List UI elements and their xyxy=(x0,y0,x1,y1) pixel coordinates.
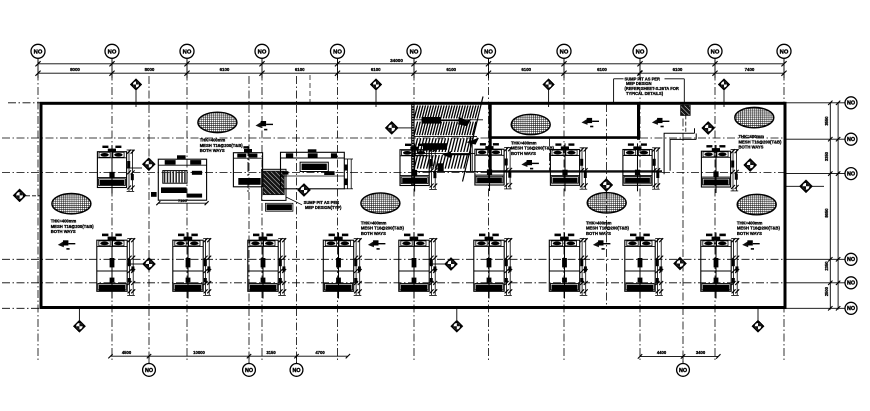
row line to right bubble xyxy=(785,282,845,284)
grid stem xyxy=(186,58,188,78)
reference diamond marker xyxy=(600,178,613,191)
room box thick walls xyxy=(490,103,638,172)
reference diamond marker xyxy=(127,263,143,265)
svg-text:2500: 2500 xyxy=(824,286,829,296)
isolated footing bottom row x=564.5 xyxy=(549,233,587,299)
wall marker diamond (bottom) xyxy=(456,309,458,321)
svg-text:BOTH WAYS: BOTH WAYS xyxy=(739,145,764,150)
svg-text:NO: NO xyxy=(292,368,300,374)
grid line vertical x=640 xyxy=(639,58,641,362)
section arrow marker xyxy=(256,121,274,130)
mesh note text xyxy=(586,220,630,236)
svg-text:NO: NO xyxy=(679,368,687,374)
slab zone hatched ellipse xyxy=(735,107,774,127)
svg-text:NO: NO xyxy=(636,49,645,55)
grid line vertical x=187 xyxy=(186,58,188,362)
combined footing F2 xyxy=(158,155,206,200)
svg-text:34000: 34000 xyxy=(390,58,403,63)
isolated footing bottom row x=112 xyxy=(97,233,135,299)
row grid line E y=282.8 xyxy=(2,282,785,284)
reference diamond marker xyxy=(13,189,26,202)
sump pit note text block xyxy=(625,77,679,97)
dimension tick xyxy=(335,61,340,66)
isolated footing bottom row x=188 xyxy=(173,233,211,299)
svg-text:NO: NO xyxy=(847,281,855,287)
stair direction arrow up xyxy=(422,117,468,124)
svg-text:4700: 4700 xyxy=(315,350,325,355)
svg-text:THK=400mm: THK=400mm xyxy=(51,218,77,223)
svg-text:NO: NO xyxy=(484,49,493,55)
slab zone hatched ellipse xyxy=(587,193,626,213)
isolated footing top row x=565 xyxy=(550,143,587,191)
dimension tick xyxy=(637,61,642,66)
svg-text:8650: 8650 xyxy=(824,208,829,218)
dimension tick xyxy=(712,61,717,66)
reference diamond marker xyxy=(702,121,715,134)
row grid line C y=172.4 xyxy=(2,171,488,173)
dimension tick xyxy=(411,61,416,66)
svg-text:3550: 3550 xyxy=(824,116,829,126)
grid bubble top xyxy=(633,44,647,58)
isolated footing top row x=716 xyxy=(701,145,738,193)
svg-text:7400: 7400 xyxy=(745,67,755,72)
dimension tick xyxy=(486,61,491,66)
F2 bar hatch xyxy=(165,171,185,182)
grid stem xyxy=(261,58,263,78)
grid bubble bottom xyxy=(148,356,150,364)
secondary grid line vertical x=683 xyxy=(682,104,684,366)
mesh note text xyxy=(737,220,781,236)
svg-text:BOTH WAYS: BOTH WAYS xyxy=(51,229,76,234)
row grid bubble right xyxy=(845,133,857,145)
stub line top margin xyxy=(309,75,311,102)
svg-text:NO: NO xyxy=(780,49,789,55)
svg-text:THK=400mm: THK=400mm xyxy=(737,220,763,225)
svg-text:NO: NO xyxy=(711,49,720,55)
grid line vertical x=112 xyxy=(111,58,113,362)
row line to right bubble xyxy=(785,102,845,104)
grid bubble bottom right xyxy=(682,356,684,364)
section arrow marker xyxy=(582,118,600,127)
svg-text:NO: NO xyxy=(847,172,855,178)
svg-text:MESH T16@200(T&B): MESH T16@200(T&B) xyxy=(511,146,555,151)
wall marker diamond (top) xyxy=(723,90,725,107)
row line to right bubble xyxy=(785,307,845,309)
svg-text:MESH T16@200(T&B): MESH T16@200(T&B) xyxy=(51,224,95,229)
svg-text:6100: 6100 xyxy=(446,67,456,72)
reference diamond marker xyxy=(429,263,445,265)
svg-text:6100: 6100 xyxy=(673,67,683,72)
svg-text:NO: NO xyxy=(847,257,855,263)
secondary grid line vertical x=606.5 xyxy=(606,104,608,308)
stair side ladder xyxy=(411,104,414,186)
dimension tick xyxy=(109,61,114,66)
section arrow marker xyxy=(368,240,386,249)
svg-text:3150: 3150 xyxy=(266,350,276,355)
wall marker diamond (bottom) xyxy=(78,309,80,321)
svg-text:THK=400mm: THK=400mm xyxy=(511,140,537,145)
svg-text:10000: 10000 xyxy=(193,350,205,355)
svg-text:THK=400mm: THK=400mm xyxy=(200,137,226,142)
row line to right bubble xyxy=(785,173,845,175)
svg-text:3400: 3400 xyxy=(696,350,706,355)
isolated footing top row x=112 xyxy=(97,146,134,194)
grid bubble top xyxy=(105,44,119,58)
wall grid stub x=549.5 xyxy=(549,139,551,172)
stair section cut slanted line xyxy=(463,97,484,182)
row grid line B y=138 xyxy=(2,137,785,139)
svg-text:NO: NO xyxy=(34,49,43,55)
left margin marker row y=196 xyxy=(26,195,41,197)
svg-text:6100: 6100 xyxy=(597,67,607,72)
grid bubble top xyxy=(482,44,496,58)
isolated footing top row x=414.6 xyxy=(400,144,437,192)
section arrow marker xyxy=(58,240,76,249)
grid stem xyxy=(639,58,641,78)
svg-text:MESH T16@200(T&B): MESH T16@200(T&B) xyxy=(586,226,630,231)
grid line vertical x=38 xyxy=(37,58,39,362)
row grid bubble right xyxy=(845,277,857,289)
dimension tick xyxy=(781,61,786,66)
row line to right bubble xyxy=(785,258,845,260)
sump note leader lines xyxy=(614,79,685,105)
isolated footing top row x=489.5 xyxy=(475,143,512,191)
lift pit corridor walls xyxy=(664,115,696,174)
reference diamond marker xyxy=(127,167,142,169)
secondary grid line vertical x=149 xyxy=(148,76,150,366)
svg-text:TYPICAL DETAILS): TYPICAL DETAILS) xyxy=(626,91,664,96)
svg-text:6100: 6100 xyxy=(295,67,305,72)
stair enclosure outline xyxy=(413,103,491,171)
mesh note text xyxy=(51,218,95,234)
grid stem xyxy=(714,58,716,78)
svg-text:NO: NO xyxy=(847,101,855,107)
svg-text:BOTH WAYS: BOTH WAYS xyxy=(361,231,386,236)
reference diamond marker xyxy=(799,180,812,193)
svg-text:4400: 4400 xyxy=(657,350,667,355)
plan boundary thick rectangle xyxy=(41,103,785,307)
slab zone hatched ellipse xyxy=(52,194,91,214)
svg-text:NO: NO xyxy=(183,49,192,55)
wall marker diamond (top) xyxy=(135,90,137,107)
right margin dimension line a xyxy=(829,102,831,309)
grid bubble bottom xyxy=(248,356,250,364)
dimension tick xyxy=(561,61,566,66)
svg-text:NO: NO xyxy=(258,49,267,55)
svg-text:BOTH WAYS: BOTH WAYS xyxy=(200,148,225,153)
svg-text:THK=400mm: THK=400mm xyxy=(739,134,765,139)
svg-text:8000: 8000 xyxy=(145,67,155,72)
mesh note text xyxy=(511,140,555,156)
svg-text:NO: NO xyxy=(410,49,419,55)
grid stem xyxy=(413,58,415,78)
reference diamond marker xyxy=(397,127,413,129)
grid line vertical x=337.5 xyxy=(337,58,339,362)
grid line vertical x=262 xyxy=(261,58,263,362)
row grid bubble right xyxy=(845,302,857,314)
row grid line F left margin stub xyxy=(2,307,41,309)
svg-text:NO: NO xyxy=(245,368,253,374)
svg-text:MESH T16@200(T&B): MESH T16@200(T&B) xyxy=(737,226,781,231)
footing F3 top row x=248 xyxy=(233,146,262,192)
svg-text:8000: 8000 xyxy=(70,67,80,72)
right margin dimension line b xyxy=(837,102,839,309)
section arrow marker xyxy=(742,240,760,249)
row grid line D y=259.3 xyxy=(2,258,785,260)
svg-text:NO: NO xyxy=(333,49,342,55)
grid bubble top xyxy=(407,44,421,58)
svg-text:THK=400mm: THK=400mm xyxy=(361,220,387,225)
dimension tick xyxy=(184,61,189,66)
svg-text:BOTH WAYS: BOTH WAYS xyxy=(586,231,611,236)
grid stem xyxy=(37,58,39,78)
grid stem xyxy=(111,58,113,78)
sump pit hatched square xyxy=(262,169,293,211)
isolated footing bottom row x=489 xyxy=(474,233,512,299)
wall marker diamond (top) xyxy=(548,90,550,107)
grid bubble top xyxy=(557,44,571,58)
strap beam thick line row C right xyxy=(488,170,662,172)
grid line vertical x=715 xyxy=(714,58,716,362)
stair inner wall xyxy=(470,137,472,172)
sump pit leader + label xyxy=(286,197,342,210)
svg-text:MESH T16@200(T&B): MESH T16@200(T&B) xyxy=(361,226,405,231)
svg-text:6100: 6100 xyxy=(220,67,230,72)
combined footing F4 xyxy=(281,149,354,189)
isolated footing bottom row x=263 xyxy=(248,233,286,299)
isolated footing top row x=637.5 xyxy=(623,143,660,191)
svg-text:NO: NO xyxy=(145,368,153,374)
svg-text:6100: 6100 xyxy=(371,67,381,72)
grid line vertical x=564 xyxy=(563,58,565,362)
section arrow marker xyxy=(521,160,539,169)
top dimension line 1 xyxy=(38,63,784,65)
slab zone hatched ellipse xyxy=(511,114,550,134)
bottom dimension line right xyxy=(640,355,718,357)
svg-text:3350: 3350 xyxy=(824,151,829,161)
lift pit hatched square xyxy=(681,105,691,115)
grid line vertical x=784 xyxy=(783,58,785,362)
svg-text:4500: 4500 xyxy=(122,350,132,355)
slab zone hatched ellipse xyxy=(737,194,776,214)
svg-text:NO: NO xyxy=(560,49,569,55)
grid stem xyxy=(783,58,785,78)
wall marker diamond (top) xyxy=(375,90,377,107)
grid stem xyxy=(337,58,339,78)
grid stem xyxy=(563,58,565,78)
svg-text:NO: NO xyxy=(847,306,855,312)
svg-text:NO: NO xyxy=(847,137,855,143)
grid bubble top xyxy=(777,44,791,58)
stair flight separator lines xyxy=(413,119,483,121)
grid bubble bottom xyxy=(296,356,298,364)
grid line vertical x=414 xyxy=(413,58,415,362)
section arrow marker xyxy=(652,118,670,127)
isolated footing bottom row x=640 xyxy=(625,233,663,299)
secondary grid line vertical x=249 xyxy=(248,76,250,366)
stair column blob xyxy=(438,163,444,171)
mesh note text xyxy=(200,137,244,153)
top dimension line 2 xyxy=(38,72,784,74)
svg-text:7100: 7100 xyxy=(178,198,188,203)
stair hatch bands xyxy=(414,105,478,168)
grid bubble top xyxy=(180,44,194,58)
row grid bubble right xyxy=(845,253,857,265)
grid line vertical x=488.5 xyxy=(488,58,490,362)
wall marker diamond (bottom) xyxy=(757,309,759,321)
svg-text:2350: 2350 xyxy=(824,261,829,271)
slab zone hatched ellipse xyxy=(361,193,400,213)
dimension tick xyxy=(35,61,40,66)
row grid bubble right xyxy=(845,97,857,109)
reference diamond marker xyxy=(673,257,686,270)
reference diamond marker xyxy=(744,158,757,171)
right margin marker row y=186 xyxy=(785,185,824,187)
isolated footing bottom row x=338.5 xyxy=(323,233,361,299)
svg-text:MESH T16@200(T&B): MESH T16@200(T&B) xyxy=(739,139,783,144)
mesh note text xyxy=(361,220,405,236)
secondary grid line vertical x=296.5 xyxy=(296,76,298,366)
svg-text:6100: 6100 xyxy=(521,67,531,72)
grid bubble top xyxy=(31,44,45,58)
grid bubble top xyxy=(331,44,345,58)
grid bubble top xyxy=(708,44,722,58)
svg-text:BOTH WAYS: BOTH WAYS xyxy=(511,151,536,156)
stair direction arrow down xyxy=(423,143,470,158)
svg-text:BOTH WAYS: BOTH WAYS xyxy=(737,231,762,236)
svg-text:NO: NO xyxy=(108,49,117,55)
isolated footing bottom row x=716 xyxy=(701,233,739,299)
reference diamond marker xyxy=(297,183,310,196)
stair mid arrows dark xyxy=(457,119,472,126)
svg-text:THK=400mm: THK=400mm xyxy=(586,220,612,225)
row grid bubble right xyxy=(845,168,857,180)
isolated footing bottom row x=414 xyxy=(399,233,437,299)
row line to right bubble xyxy=(785,138,845,140)
svg-text:MESH T16@200(T&B): MESH T16@200(T&B) xyxy=(200,143,244,148)
section arrow marker xyxy=(593,240,611,249)
mesh note text xyxy=(739,134,783,150)
svg-text:MEP DESIGN(TYP): MEP DESIGN(TYP) xyxy=(305,205,342,210)
slab zone hatched ellipse xyxy=(198,112,237,132)
bottom dimension line left xyxy=(111,355,348,357)
grid bubble top xyxy=(255,44,269,58)
dimension tick xyxy=(259,61,264,66)
row grid line A left margin stub xyxy=(8,102,41,104)
grid stem xyxy=(488,58,490,78)
lift leader tick xyxy=(638,70,642,74)
